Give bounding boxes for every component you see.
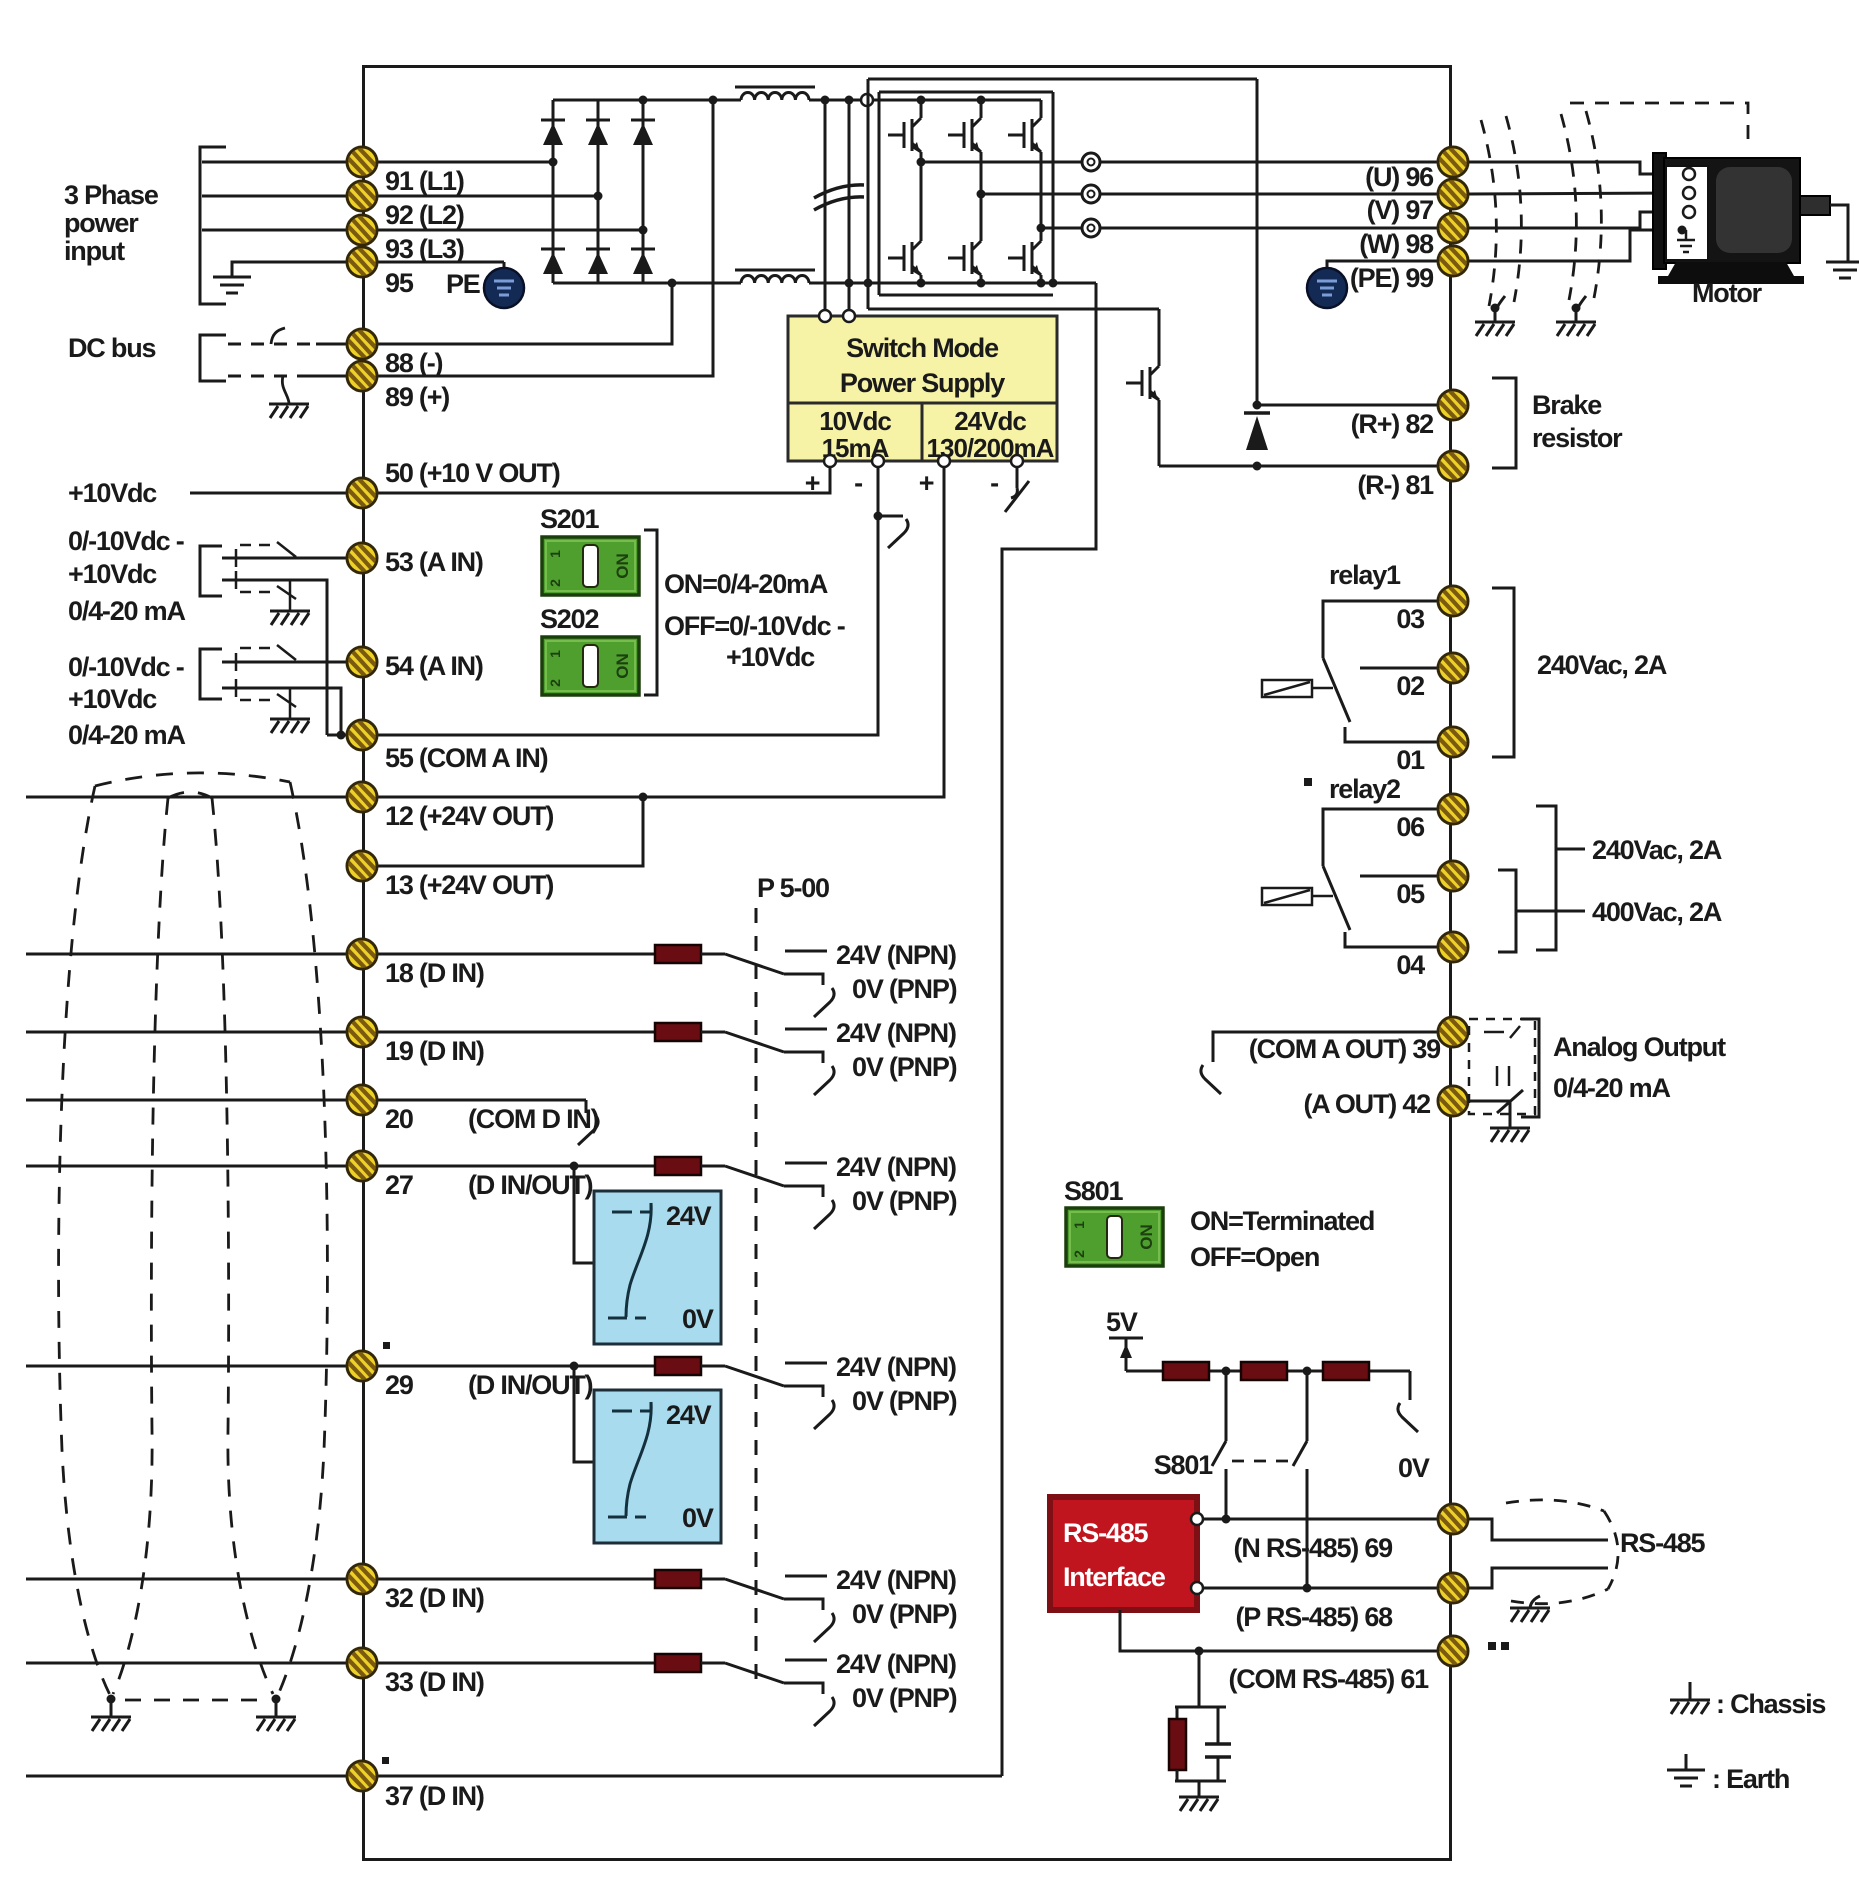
DC+ bus right of inductor — [809, 99, 1041, 102]
motor terminal circles — [1683, 168, 1695, 180]
chassis ground under 89 stub — [269, 404, 309, 418]
terminal 29 — [347, 1351, 377, 1381]
5V supply bar — [1109, 1337, 1143, 1340]
tick marks 53 — [235, 549, 238, 567]
svg-text:88 (-): 88 (-) — [385, 348, 443, 378]
RS-485 cable wire P — [1469, 1568, 1608, 1588]
termination rail — [1126, 1370, 1165, 1373]
terminal 92 (L2) — [347, 181, 377, 211]
logic box 29 switch symbol — [608, 1402, 651, 1517]
wire L3 input — [202, 229, 643, 232]
earth legend symbol — [1685, 1754, 1688, 1770]
svg-text:-: - — [990, 468, 998, 498]
node V top — [977, 96, 986, 105]
RS-485 cable shield dashed — [1506, 1500, 1618, 1604]
wire row 32 — [26, 1578, 655, 1581]
svg-text:05: 05 — [1396, 879, 1425, 909]
svg-text:(COM RS-485) 61: (COM RS-485) 61 — [1228, 1664, 1429, 1694]
motor cable shield drain left — [1495, 296, 1505, 322]
SMPS top pin DC- — [843, 310, 855, 322]
wire phase W — [1041, 227, 1445, 230]
svg-text:(W) 98: (W) 98 — [1359, 229, 1434, 259]
wire COM RS-485 61 — [1120, 1610, 1445, 1651]
cable shield inner dashed oval — [113, 792, 273, 1694]
node box edge on DC- bus — [864, 279, 873, 288]
pull resistor row 33 — [655, 1654, 701, 1672]
svg-text:24V (NPN): 24V (NPN) — [836, 1565, 956, 1595]
terminal 05 — [1438, 861, 1468, 891]
motor internal earth — [1678, 226, 1687, 235]
branch 27 to logic box — [574, 1166, 594, 1263]
wire motor to earth — [1830, 205, 1848, 262]
terminal 53 — [347, 543, 377, 573]
NPN PNP selector row 32 — [701, 1576, 827, 1610]
terminal 93 (L3) — [347, 215, 377, 245]
terminal 20 — [347, 1085, 377, 1115]
wire 10V+ to terminal 50 — [190, 467, 830, 493]
wire relay1 NC 02 — [1360, 667, 1445, 670]
terminal 89 (+) — [347, 361, 377, 391]
svg-text:10Vdc: 10Vdc — [819, 406, 891, 436]
double star terminal 61 — [1488, 1642, 1496, 1650]
bracket brake resistor — [1492, 378, 1516, 468]
wire phase U — [921, 161, 1445, 164]
terminal 04 — [1438, 932, 1468, 962]
wire 89 to terminal — [306, 375, 362, 378]
svg-text:3 Phase: 3 Phase — [64, 180, 159, 210]
cable drain right — [272, 1695, 281, 1704]
terminal 54 — [347, 647, 377, 677]
dashed arrow 53 lower — [240, 591, 276, 594]
wire row 27 — [26, 1165, 655, 1168]
svg-text:P 5-00: P 5-00 — [757, 873, 829, 903]
inverter leg V vertical — [980, 100, 983, 110]
dashed parameter line P5-00 — [755, 908, 758, 1690]
svg-text:400Vac, 2A: 400Vac, 2A — [1592, 897, 1722, 927]
wire PE to motor ground — [1469, 230, 1678, 261]
hook row 20 — [585, 1100, 588, 1113]
svg-text:RS-485: RS-485 — [1063, 1518, 1149, 1548]
svg-text:-: - — [854, 468, 862, 498]
terminal 42 — [1438, 1086, 1468, 1116]
terminal 03 — [1438, 586, 1468, 616]
wire row 33 — [26, 1662, 655, 1665]
earth ground at motor — [1826, 262, 1859, 278]
svg-text:20: 20 — [385, 1104, 413, 1134]
svg-text:89 (+): 89 (+) — [385, 382, 449, 412]
wire 55 row — [327, 734, 362, 737]
RS-485 pin P — [1191, 1582, 1203, 1594]
wire relay2 common 06 — [1323, 809, 1445, 866]
svg-text:19 (D IN): 19 (D IN) — [385, 1036, 484, 1066]
RC network to ground — [1198, 1651, 1201, 1707]
DC- bus right of inductor — [809, 282, 1096, 285]
chassis ground RS-485 cable — [1510, 1608, 1550, 1622]
svg-text:91 (L1): 91 (L1) — [385, 166, 464, 196]
svg-text:Interface: Interface — [1063, 1562, 1166, 1592]
svg-text:24V (NPN): 24V (NPN) — [836, 1152, 956, 1182]
svg-text:0/-10Vdc -: 0/-10Vdc - — [68, 526, 184, 556]
cable drain left — [107, 1695, 116, 1704]
wire L2 input — [202, 195, 598, 198]
node 89 on DC+ bus — [709, 96, 718, 105]
hook on 88 stub — [271, 328, 285, 344]
terminal 18 — [347, 939, 377, 969]
DC link capacitor rail plus — [824, 100, 827, 316]
current sensor ring V — [1082, 185, 1100, 203]
svg-text:0V: 0V — [1398, 1453, 1430, 1483]
svg-text:24V (NPN): 24V (NPN) — [836, 1649, 956, 1679]
terminal 88 (-) — [347, 329, 377, 359]
RC resistor — [1169, 1719, 1186, 1770]
wire inverter box to brake IGBT — [1158, 309, 1161, 358]
wire U to motor — [1469, 162, 1682, 174]
svg-text:input: input — [64, 236, 125, 266]
diode D6 lower leg3 — [631, 249, 655, 274]
wire R+ row — [1257, 404, 1445, 407]
svg-text:01: 01 — [1396, 745, 1425, 775]
svg-text:: Chassis: : Chassis — [1716, 1689, 1825, 1719]
inverter outer box top — [868, 78, 1257, 81]
wire 89 to DC+ bus — [362, 100, 713, 376]
DIP switch S801 — [1066, 1208, 1163, 1266]
wire 95 PE input — [232, 262, 362, 277]
chassis ground source 54 — [270, 719, 310, 733]
node V bottom — [977, 279, 986, 288]
svg-text:95: 95 — [385, 268, 414, 298]
DC+ bus left of inductor — [553, 99, 741, 102]
svg-text:+10Vdc: +10Vdc — [68, 684, 157, 714]
terminal 39 — [1438, 1017, 1468, 1047]
wire 54 top — [222, 661, 362, 664]
svg-text:RS-485: RS-485 — [1620, 1528, 1706, 1558]
svg-text:18 (D IN): 18 (D IN) — [385, 958, 484, 988]
node DC- bus right end — [1049, 279, 1058, 288]
logic box 29 — [594, 1390, 721, 1543]
wire jumper 12 to 13 — [362, 797, 643, 866]
svg-text:37 (D IN): 37 (D IN) — [385, 1781, 484, 1811]
wire 24V+ to terminal 12 — [362, 467, 944, 797]
svg-text:04: 04 — [1396, 950, 1425, 980]
DC link capacitor symbol — [814, 185, 864, 210]
rectifier leg 2 — [597, 100, 600, 283]
svg-text:0/4-20 mA: 0/4-20 mA — [1553, 1073, 1670, 1103]
drive enclosure box — [364, 67, 1451, 1860]
chassis ground cable drain left — [91, 1717, 131, 1731]
SMPS top pin DC+ — [819, 310, 831, 322]
IGBT T3 upper W — [1008, 110, 1041, 160]
diode D2 upper leg2 — [586, 120, 610, 145]
node diode on R- row — [1253, 462, 1262, 471]
svg-text:(P RS-485) 68: (P RS-485) 68 — [1236, 1602, 1394, 1632]
svg-text:0V (PNP): 0V (PNP) — [852, 1186, 957, 1216]
cable shield dashed bottom link — [125, 1699, 262, 1702]
node RC branch — [1195, 1647, 1204, 1656]
wire 53 top — [222, 557, 362, 560]
DC link inductor upper — [735, 87, 815, 100]
dashed arrow 54 lower — [240, 699, 276, 702]
wire 53 return — [222, 580, 327, 735]
wire relay2 NC 05 — [1360, 875, 1445, 878]
svg-text:0V: 0V — [682, 1304, 714, 1334]
node R+ junction — [1253, 401, 1262, 410]
svg-text:92 (L2): 92 (L2) — [385, 200, 464, 230]
NPN PNP selector row 27 — [701, 1163, 827, 1197]
node rail drop 1 — [1222, 1367, 1231, 1376]
IGBT T5 lower V — [948, 233, 981, 283]
pull resistor row 19 — [655, 1023, 701, 1041]
terminal 68 — [1438, 1573, 1468, 1603]
chassis ground analog out — [1490, 1128, 1530, 1142]
chassis ground cable drain right — [256, 1717, 296, 1731]
node L2 on leg2 — [594, 192, 603, 201]
DC link inductor lower — [735, 270, 815, 283]
branch 29 to logic box — [574, 1366, 594, 1462]
bracket source 54 — [200, 649, 222, 699]
svg-text:24V: 24V — [666, 1201, 712, 1231]
pull resistor row 27 — [655, 1157, 701, 1175]
relay1 blade — [1323, 658, 1350, 722]
wire row 29 — [26, 1365, 655, 1368]
node rail drop 2 — [1303, 1367, 1312, 1376]
svg-text:relay1: relay1 — [1329, 560, 1401, 590]
termination resistor R2 — [1241, 1362, 1287, 1380]
wire P RS-485 68 — [1203, 1587, 1445, 1590]
wire V to motor — [1469, 193, 1682, 194]
wire relay1 NO 01 — [1345, 727, 1445, 742]
svg-text:0/4-20 mA: 0/4-20 mA — [68, 720, 185, 750]
svg-text:0V (PNP): 0V (PNP) — [852, 1052, 957, 1082]
svg-text:Brake: Brake — [1532, 390, 1602, 420]
svg-text:54 (A IN): 54 (A IN) — [385, 651, 483, 681]
svg-text:53 (A IN): 53 (A IN) — [385, 547, 483, 577]
terminal 12 — [347, 782, 377, 812]
svg-text:OFF=0/-10Vdc -: OFF=0/-10Vdc - — [664, 611, 845, 641]
earth ground at input — [213, 277, 251, 293]
terminal (PE) 99 — [1438, 246, 1468, 276]
inverter leg W vertical — [1040, 100, 1043, 110]
svg-text:+10Vdc: +10Vdc — [68, 559, 157, 589]
svg-text:0/4-20 mA: 0/4-20 mA — [68, 596, 185, 626]
IGBT T6 lower W — [1008, 233, 1041, 283]
tick marks 54 — [235, 653, 238, 671]
wire COM A OUT hook — [1213, 1032, 1445, 1062]
wire relay2 NO 04 — [1345, 932, 1445, 947]
svg-text:24V (NPN): 24V (NPN) — [836, 940, 956, 970]
svg-text:03: 03 — [1396, 604, 1425, 634]
switch on 24V- pin — [1016, 467, 1019, 488]
pull resistor row 29 — [655, 1357, 701, 1375]
terminal 06 — [1438, 794, 1468, 824]
analog output dashed device box — [1469, 1019, 1535, 1114]
terminal 27 — [347, 1151, 377, 1181]
diode D3 upper leg3 — [631, 120, 655, 145]
star terminal 37 — [382, 1757, 389, 1764]
chassis legend symbol — [1689, 1682, 1692, 1700]
svg-text:Power Supply: Power Supply — [840, 368, 1005, 398]
diode D5 lower leg2 — [586, 249, 610, 274]
wire 10V- to terminal 55 — [362, 467, 878, 735]
NPN PNP selector row 29 — [701, 1363, 827, 1397]
terminal 95 (PE) — [347, 247, 377, 277]
node U top — [917, 96, 926, 105]
bracket relay2 outer — [1536, 806, 1556, 950]
logic box 27 switch symbol — [608, 1203, 651, 1318]
svg-text:S202: S202 — [540, 604, 598, 634]
brake freewheel diode — [1244, 413, 1270, 450]
chassis ground source 53 — [270, 611, 310, 625]
svg-text:93 (L3): 93 (L3) — [385, 234, 464, 264]
terminal 32 — [347, 1564, 377, 1594]
bracket source 53 — [200, 546, 222, 596]
DC link capacitor rail minus — [848, 100, 851, 316]
terminal 37 — [347, 1761, 377, 1791]
terminal (U) 96 — [1438, 147, 1468, 177]
terminal 55 — [347, 720, 377, 750]
node jumper on row 12 — [639, 793, 648, 802]
svg-text:+10Vdc: +10Vdc — [726, 642, 815, 672]
svg-text:06: 06 — [1396, 812, 1425, 842]
inverter outer box left — [867, 79, 870, 309]
SMPS bottom pin 24V+ — [938, 455, 950, 467]
inverter inner bracket bottom — [879, 294, 1053, 297]
cable shield outer dashed oval — [59, 773, 328, 1697]
chassis ground cable right — [1556, 322, 1596, 336]
wire 42 to ground — [1469, 1101, 1510, 1128]
svg-text:(N RS-485) 69: (N RS-485) 69 — [1234, 1533, 1394, 1563]
hook branch on 10V- wire — [878, 515, 903, 518]
S801 switch drop 2 — [1306, 1371, 1309, 1441]
svg-text:240Vac, 2A: 240Vac, 2A — [1537, 650, 1667, 680]
S801 switch drop 1 — [1225, 1371, 1228, 1441]
motor cable shield dashed arcs — [1481, 103, 1748, 306]
open node on DC+ bus — [861, 94, 873, 106]
NPN PNP selector row 19 — [701, 1029, 827, 1063]
wire DC- to lower circuits — [1002, 283, 1096, 1776]
svg-text:S801: S801 — [1154, 1450, 1213, 1480]
svg-text:+: + — [919, 468, 934, 498]
svg-text:0/-10Vdc -: 0/-10Vdc - — [68, 652, 184, 682]
chassis ground RC — [1179, 1797, 1219, 1811]
svg-text:S201: S201 — [540, 504, 599, 534]
bracket 3-phase input — [200, 147, 226, 304]
RS-485 pin N — [1191, 1513, 1203, 1525]
terminal 91 (L1) — [347, 147, 377, 177]
node rectifier top leg3 — [639, 96, 648, 105]
terminal 69 — [1438, 1504, 1468, 1534]
terminal (R-) 81 — [1438, 451, 1468, 481]
svg-text:ON=0/4-20mA: ON=0/4-20mA — [664, 569, 828, 599]
inverter leg U vertical — [920, 100, 923, 110]
svg-text:(A OUT) 42: (A OUT) 42 — [1303, 1089, 1430, 1119]
NPN PNP selector row 18 — [701, 951, 827, 985]
svg-text:24V (NPN): 24V (NPN) — [836, 1018, 956, 1048]
svg-text:0V (PNP): 0V (PNP) — [852, 1386, 957, 1416]
wire bracket outer to label — [1556, 848, 1585, 851]
wire relay1 common 03 — [1323, 601, 1445, 658]
relay1 coil — [1262, 680, 1333, 697]
bracket relay2 inner — [1498, 870, 1516, 952]
RS-485 cable drain — [1530, 1596, 1540, 1608]
svg-text:Switch Mode: Switch Mode — [846, 333, 999, 363]
svg-text:relay2: relay2 — [1329, 774, 1400, 804]
RS-485 cable wire N — [1469, 1519, 1608, 1540]
node 54 return on 55 row — [337, 731, 346, 740]
IGBT T4 lower U — [888, 233, 921, 283]
svg-text:32 (D IN): 32 (D IN) — [385, 1583, 484, 1613]
wire bracket inner to label — [1516, 910, 1585, 913]
terminal 61 — [1438, 1636, 1468, 1666]
svg-text:(V) 97: (V) 97 — [1367, 195, 1434, 225]
pull resistor row 18 — [655, 945, 701, 963]
pull resistor row 32 — [655, 1570, 701, 1588]
DC- bus left of inductor — [553, 282, 741, 285]
node V tap — [977, 190, 986, 199]
node W bottom — [1037, 279, 1046, 288]
inverter inner bracket right bar — [1052, 92, 1055, 283]
rectifier leg 3 — [642, 100, 645, 283]
svg-text:24V (NPN): 24V (NPN) — [836, 1352, 956, 1382]
logic box 27 — [594, 1191, 721, 1344]
svg-text:0V (PNP): 0V (PNP) — [852, 974, 957, 1004]
IGBT T2 upper V — [948, 110, 981, 160]
terminal 33 — [347, 1648, 377, 1678]
terminal 02 — [1438, 653, 1468, 683]
wire PE to ground symbol — [362, 261, 504, 264]
dashed arrow 54 upper — [240, 647, 276, 650]
motor cable shield drain right — [1576, 296, 1586, 322]
svg-text:240Vac, 2A: 240Vac, 2A — [1592, 835, 1722, 865]
svg-text:50 (+10 V OUT): 50 (+10 V OUT) — [385, 458, 560, 488]
svg-text:55 (COM A IN): 55 (COM A IN) — [385, 743, 548, 773]
svg-text:(PE) 99: (PE) 99 — [1350, 263, 1434, 293]
relay2 blade — [1323, 866, 1350, 930]
dashed link S801 blades — [1232, 1460, 1298, 1463]
SMPS divider vertical — [921, 403, 924, 461]
svg-text:5V: 5V — [1106, 1307, 1138, 1337]
SMPS box — [788, 316, 1057, 461]
diode D1 upper leg1 — [541, 120, 565, 145]
rectifier leg 1 — [552, 100, 555, 283]
RC capacitor — [1217, 1707, 1220, 1744]
terminal 19 — [347, 1017, 377, 1047]
svg-text:power: power — [64, 208, 139, 238]
svg-text:02: 02 — [1396, 671, 1424, 701]
svg-text:PE: PE — [446, 269, 480, 299]
inverter inner bracket top — [879, 91, 1053, 94]
wire row 19 — [26, 1031, 655, 1034]
svg-text:29: 29 — [385, 1370, 414, 1400]
node U tap — [917, 158, 926, 167]
svg-text:+10Vdc: +10Vdc — [68, 478, 157, 508]
wire row 12 — [26, 796, 944, 799]
termination resistor R1 — [1163, 1362, 1209, 1380]
PE protective earth circle — [484, 268, 524, 308]
svg-text:S801: S801 — [1064, 1176, 1123, 1206]
wire W to motor — [1469, 212, 1682, 228]
svg-text:Motor: Motor — [1692, 278, 1763, 308]
node U bottom — [917, 279, 926, 288]
node L3 on leg3 — [639, 226, 648, 235]
node cap minus on DC+ bus — [845, 96, 854, 105]
SMPS bottom pin 10V+ — [824, 455, 836, 467]
svg-text:OFF=Open: OFF=Open — [1190, 1242, 1319, 1272]
termination resistor R3 — [1323, 1362, 1369, 1380]
svg-text:resistor: resistor — [1532, 423, 1623, 453]
node on 10V- wire — [874, 512, 883, 521]
hook on 89 stub — [282, 376, 289, 403]
node cap minus on DC- bus — [845, 279, 854, 288]
